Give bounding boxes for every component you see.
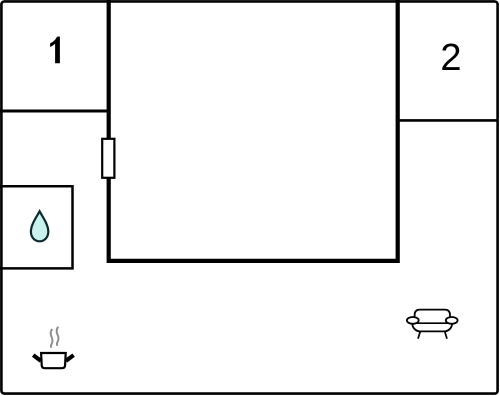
wall below room 2 [396, 119, 498, 122]
sofa left leg [418, 330, 421, 339]
kitchen pot left handle [33, 355, 41, 361]
sofa backrest [415, 310, 450, 324]
sofa seat [412, 315, 452, 332]
sofa right armrest [446, 317, 458, 324]
kitchen pot body [41, 353, 66, 368]
kitchen pot steam right [57, 327, 59, 346]
sofa seat line [415, 322, 450, 324]
room label 1 [50, 37, 60, 64]
wall below room 1 [0, 110, 110, 113]
bathroom wall [0, 186, 73, 268]
kitchen pot steam left [51, 329, 53, 348]
water drop (bathroom icon) [31, 211, 48, 241]
door on room 1 wall [102, 139, 114, 178]
sofa left armrest [407, 317, 419, 324]
living area U-shaped wall [109, 0, 398, 261]
sofa right leg [444, 330, 447, 339]
kitchen pot right handle [66, 355, 74, 361]
svg-text:2: 2 [440, 37, 461, 79]
